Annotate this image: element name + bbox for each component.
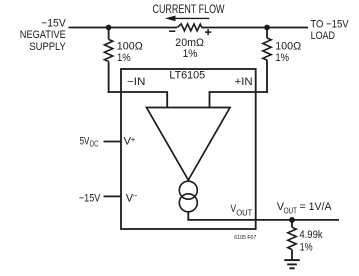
value label: 100 Ohm 1% (left) [117, 41, 143, 64]
wire: 4.99k resistor to ground [291, 250, 293, 260]
wire: VOUT junction to 4.99k resistor [291, 220, 293, 227]
resistor R1 100 Ohm (left) [104, 39, 112, 61]
svg-text:TO −15V: TO −15V [310, 18, 349, 30]
svg-text:LOAD: LOAD [311, 30, 335, 42]
svg-text:100Ω: 100Ω [117, 41, 143, 53]
svg-text:4.99k: 4.99k [299, 229, 323, 241]
svg-text:1%: 1% [183, 48, 198, 60]
ground symbol [284, 260, 300, 268]
polarity minus sign (left of sense resistor) [169, 30, 175, 32]
svg-text:LT6105: LT6105 [169, 70, 205, 82]
pin label: V+ [124, 135, 136, 148]
polarity plus sign (right of sense resistor) [205, 29, 211, 35]
svg-text:6105 F07: 6105 F07 [234, 235, 256, 241]
svg-text:+IN: +IN [235, 76, 253, 88]
label: -15V NEGATIVE SUPPLY [20, 17, 67, 53]
svg-text:−: − [133, 191, 138, 200]
svg-text:NEGATIVE: NEGATIVE [20, 29, 66, 41]
svg-text:1%: 1% [117, 52, 131, 64]
svg-text:SUPPLY: SUPPLY [29, 41, 66, 53]
wire: V+ pin wire [104, 141, 122, 143]
wire: +IN input wire into amplifier [210, 92, 268, 108]
wire: left junction down to left 100 ohm resistor [108, 28, 110, 40]
pin label: V- [126, 191, 138, 204]
svg-text:−15V: −15V [41, 17, 66, 29]
resistor R3 4.99k [288, 227, 296, 249]
node: right junction on top rail [264, 25, 270, 31]
svg-text:5V: 5V [80, 136, 90, 148]
svg-text:+: + [131, 135, 136, 144]
wire: left 100 ohm resistor down to -IN routing [108, 61, 110, 93]
svg-text:= 1V/A: = 1V/A [300, 201, 333, 213]
current source symbol: lower circle [179, 194, 197, 212]
svg-text:−15V: −15V [79, 192, 101, 204]
value label: 20mOhm 1% [175, 37, 204, 60]
svg-text:CURRENT FLOW: CURRENT FLOW [153, 2, 226, 16]
wire: right 100 ohm resistor down to +IN routing [266, 60, 268, 93]
op-amp triangle [147, 108, 231, 181]
wire: top rail right segment (sense resistor to load) [202, 27, 309, 29]
wire: top rail left segment (-15V supply to sense resistor) [69, 27, 178, 29]
wire: V- pin wire [104, 195, 122, 197]
resistor R2 100 Ohm (right) [263, 38, 271, 60]
label: TO -15V LOAD [310, 18, 349, 42]
svg-text:−IN: −IN [127, 76, 145, 88]
svg-text:DC: DC [90, 139, 99, 148]
svg-text:1%: 1% [275, 52, 289, 64]
node: VOUT junction [289, 217, 295, 223]
value label: 100 Ohm 1% (right) [275, 40, 301, 64]
svg-text:OUT: OUT [236, 209, 252, 218]
label: 5VDC supply [80, 136, 99, 149]
pin label: VOUT (inside box) [230, 203, 252, 217]
svg-text:1%: 1% [300, 241, 313, 253]
current direction arrow (pointing left) [165, 16, 209, 22]
op-amp U1 LT6105 package outline [121, 69, 256, 229]
resistor RS 20mOhm sense resistor [177, 24, 201, 31]
svg-text:OUT: OUT [284, 206, 297, 215]
current source symbol: upper circle [179, 181, 197, 199]
value label: 4.99k 1% [299, 229, 323, 253]
wire: -IN input wire into amplifier [108, 92, 168, 108]
wire: VOUT output wire [188, 211, 339, 220]
label: VOUT = 1V/A [277, 201, 332, 215]
wire: right junction down to right 100 ohm resistor [266, 28, 268, 39]
svg-text:100Ω: 100Ω [275, 40, 301, 52]
node: left junction on top rail [106, 25, 112, 31]
